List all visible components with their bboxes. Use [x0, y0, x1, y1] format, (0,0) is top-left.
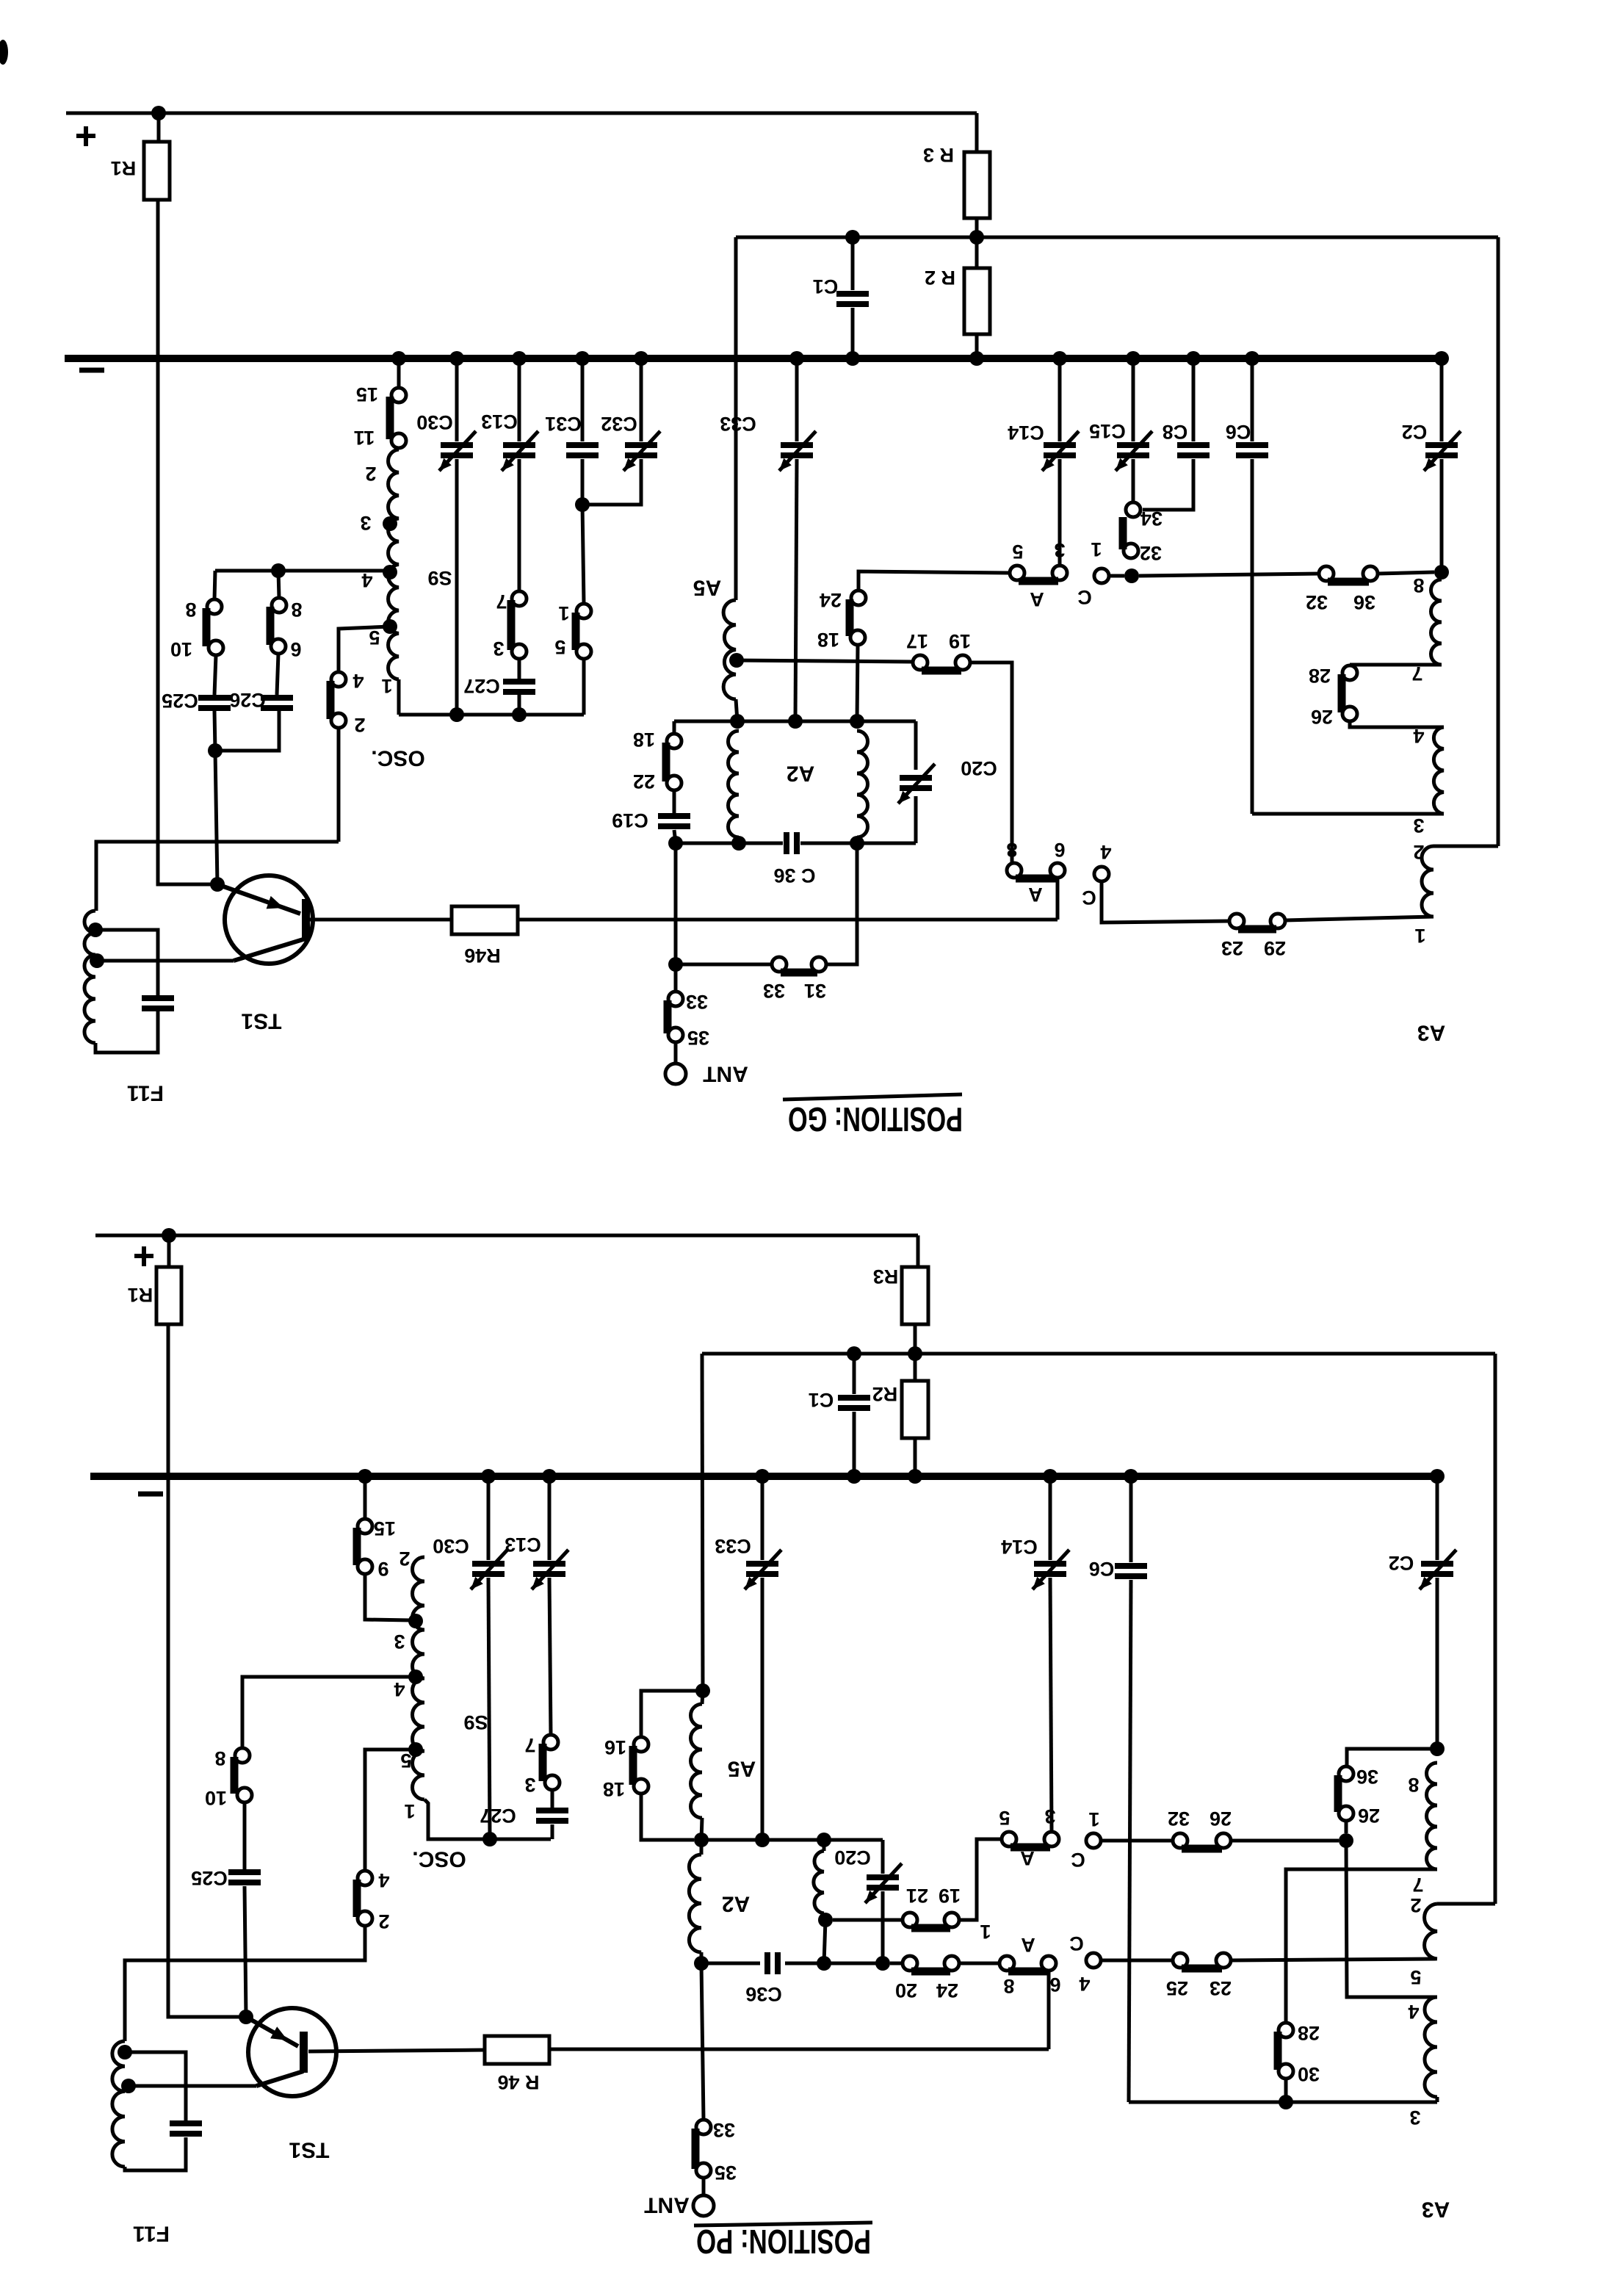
svg-text:25: 25	[1166, 1977, 1188, 1999]
wire S9 tap4 to switch pairs	[215, 569, 390, 573]
wire bus to C2 (bottom)	[1436, 1476, 1439, 1560]
wire R3 drop (bottom)	[916, 1235, 920, 1267]
wire C36 line right	[785, 1962, 883, 1965]
switch contact 7 (bottom)	[543, 1735, 558, 1750]
capacitor C8	[1177, 442, 1210, 448]
svg-text:5: 5	[1012, 541, 1023, 563]
wire osc line to F11	[96, 842, 339, 911]
wire TS1 collector to R46	[310, 918, 452, 922]
resistor R1	[144, 142, 170, 200]
variable capacitor C33	[781, 442, 813, 448]
node C20 bottom (bottom)	[875, 1956, 890, 1971]
switch bar 21-19	[911, 1924, 950, 1932]
svg-text:C: C	[1077, 586, 1092, 608]
wire C1 to bus (bottom)	[853, 1412, 856, 1476]
svg-text:2: 2	[1410, 1894, 1421, 1916]
capacitor C31	[566, 442, 599, 448]
wire + supply rail (bottom)	[95, 1234, 918, 1238]
svg-text:R46: R46	[464, 945, 501, 967]
node bus to C6	[1245, 351, 1259, 366]
svg-text:1: 1	[1091, 538, 1102, 560]
svg-text:5: 5	[554, 636, 565, 658]
svg-text:19: 19	[949, 630, 971, 652]
wire bus to C30	[455, 358, 459, 441]
wire contact 35 to ANT (bottom)	[702, 2178, 706, 2195]
coil A3 winding 2-1	[1422, 846, 1433, 917]
svg-text:3: 3	[493, 638, 504, 660]
wire contact 10 to C25 (bottom)	[243, 1802, 247, 1869]
node A2 top / C33	[788, 714, 803, 729]
svg-text:30: 30	[1298, 2063, 1320, 2085]
switch bar 17-19	[922, 667, 961, 675]
wire contact 18 to A5 bottom	[641, 1794, 694, 1840]
switch contact 3 (bottom)	[545, 1775, 560, 1790]
variable capacitor C14	[1044, 442, 1076, 448]
switch contact 5	[576, 644, 591, 659]
svg-text:C8: C8	[1163, 421, 1188, 443]
node A5 top (bottom)	[695, 1683, 710, 1698]
wire A2 primary stub	[700, 1840, 704, 1855]
node bus to C33 (bottom)	[755, 1469, 770, 1484]
wire R2 to bus (bottom)	[914, 1438, 917, 1476]
svg-text:C13: C13	[481, 411, 518, 433]
wire R1 top stub (bottom)	[167, 1235, 171, 1267]
switch bar 8-6	[267, 607, 275, 645]
svg-text:22: 22	[633, 770, 655, 793]
svg-text:36: 36	[1356, 1766, 1378, 1788]
switch bar 15-9	[353, 1528, 361, 1565]
wire bus to C13	[518, 358, 521, 441]
svg-text:11: 11	[354, 427, 375, 449]
switch contact C (isolated, row1)	[1094, 568, 1109, 583]
svg-text:28: 28	[1298, 2022, 1320, 2044]
switch contact 8 (bottom)	[235, 1748, 250, 1763]
wire R1 top stub	[157, 113, 161, 142]
svg-text:C13: C13	[505, 1534, 541, 1556]
switch bar 5-3	[1019, 577, 1058, 585]
wire tap to contact 21	[833, 1918, 903, 1922]
switch contact 9	[358, 1559, 372, 1574]
wire right side to winding 2	[1433, 845, 1498, 848]
node F11 tap upper (bottom)	[117, 2045, 132, 2059]
wire bus to C6 (bottom)	[1129, 1476, 1133, 1562]
switch bar 29-23	[1238, 925, 1276, 934]
wire A2 bottom line right	[800, 842, 916, 845]
node A2 top / 18	[850, 714, 864, 729]
coil A5	[723, 600, 736, 699]
wire antenna node down	[674, 964, 678, 992]
capacitor C6 (bottom)	[1115, 1563, 1147, 1569]
switch contact 11	[391, 433, 406, 448]
wire A2 secondary stub top	[822, 1840, 826, 1851]
switch contact 2	[331, 713, 346, 728]
wire C32 join jog	[582, 459, 641, 505]
svg-text:C19: C19	[612, 809, 648, 831]
svg-text:6: 6	[1054, 839, 1065, 861]
wire 5/3 row to contact 24	[858, 571, 1010, 591]
wire C14 to contact 3	[1058, 459, 1062, 566]
wire bus to C33	[795, 358, 799, 441]
resistor R3 (bottom)	[902, 1267, 928, 1324]
wire contact 3 to C27 (bottom)	[551, 1790, 554, 1808]
node osc bottom / C30	[449, 707, 464, 722]
wire corner to contact 8 left	[214, 571, 215, 599]
node bus to C8	[1186, 351, 1201, 366]
switch contact 7	[512, 591, 527, 606]
node A3 bottom tee (bottom)	[1279, 2095, 1293, 2109]
svg-text:7: 7	[524, 1734, 535, 1756]
capacitor C27 (bottom)	[536, 1808, 568, 1813]
svg-text:R3: R3	[873, 1266, 899, 1288]
svg-text:C26: C26	[229, 689, 266, 711]
wire supply to A5 (left side)	[734, 237, 738, 600]
switch contact 22	[667, 776, 681, 790]
svg-text:7: 7	[1411, 663, 1422, 685]
node bus to C2 (bus end)	[1434, 351, 1449, 366]
symbol + (battery plus)	[76, 134, 95, 138]
resistor R2 (bottom)	[902, 1381, 928, 1438]
switch contact 24	[851, 591, 866, 605]
switch contact 32 (bottom)	[1173, 1833, 1187, 1848]
variable capacitor C20 (bottom)	[867, 1874, 899, 1880]
resistor R46 (bottom)	[485, 2036, 549, 2064]
wire R2 to bus	[975, 334, 979, 358]
switch contact 3 (bottom A row)	[1044, 1832, 1059, 1846]
svg-text:2: 2	[365, 463, 376, 485]
node R2 bus	[969, 351, 984, 366]
svg-text:10: 10	[170, 638, 192, 660]
wire bus to C2	[1440, 358, 1444, 441]
svg-text:33: 33	[713, 2119, 735, 2141]
terminal ANT (bottom)	[693, 2195, 714, 2216]
wire C30 down (bottom)	[488, 1578, 490, 1839]
wire contact 2 down	[337, 728, 341, 842]
svg-text:2: 2	[399, 1548, 410, 1570]
node F11 tap lower	[90, 953, 104, 968]
capacitor F11 tuning (bottom)	[170, 2120, 202, 2126]
wire C2 down	[1440, 459, 1444, 572]
svg-text:19: 19	[939, 1885, 961, 1907]
wire C13 to contact 7 (bottom)	[549, 1578, 551, 1735]
switch contact 32 (stack)	[1124, 544, 1138, 558]
wire C19 node down to 33 node	[674, 843, 678, 964]
svg-text:A5: A5	[728, 1757, 756, 1781]
svg-text:1: 1	[1088, 1808, 1099, 1830]
switch contact 35 (bottom)	[696, 2163, 711, 2178]
wire C1 top	[851, 237, 855, 290]
svg-text:C14: C14	[1001, 1536, 1038, 1558]
capacitor C25 (bottom)	[228, 1869, 261, 1875]
coil A3 winding 4-3	[1433, 727, 1444, 814]
wire C19 to A2 bottom	[674, 830, 676, 843]
wire 7 end to contacts	[1350, 663, 1442, 667]
node C1 junction	[845, 230, 860, 245]
svg-text:10: 10	[205, 1787, 227, 1809]
wire secondary tap down	[824, 1920, 825, 1963]
svg-text:8: 8	[1003, 1975, 1014, 1997]
svg-text:18: 18	[633, 729, 655, 751]
svg-text:C1: C1	[813, 275, 839, 297]
wire right side to winding 2 (bottom)	[1437, 1902, 1495, 1906]
svg-text:18: 18	[817, 629, 839, 651]
svg-text:35: 35	[715, 2162, 737, 2184]
switch contact 5 (A row)	[1010, 566, 1024, 580]
switch contact 29	[1270, 914, 1285, 928]
svg-text:C1: C1	[809, 1389, 834, 1411]
svg-text:5: 5	[369, 627, 380, 649]
variable capacitor C2	[1425, 442, 1458, 448]
switch bar 32-26 (bottom)	[1182, 1845, 1222, 1853]
svg-text:A: A	[1028, 884, 1043, 906]
switch contact 15	[391, 388, 406, 402]
svg-text:29: 29	[1264, 937, 1286, 959]
wire bus to C14	[1058, 358, 1062, 441]
wire emitter to F11	[97, 959, 234, 963]
svg-text:21: 21	[906, 1885, 928, 1907]
wire C27 down	[518, 695, 521, 715]
scan artifact (corner mark)	[0, 40, 8, 65]
svg-text:8: 8	[1006, 839, 1017, 861]
svg-text:5: 5	[1410, 1966, 1421, 1988]
switch contact 32 (pair)	[1319, 566, 1334, 581]
svg-text:7: 7	[1412, 1874, 1423, 1896]
variable capacitor C2 (bottom)	[1421, 1561, 1453, 1567]
svg-text:16: 16	[604, 1736, 626, 1758]
svg-text:C15: C15	[1089, 420, 1126, 442]
node bus to C13	[512, 351, 527, 366]
switch contact 36	[1363, 566, 1378, 581]
variable capacitor C13 (bottom)	[533, 1561, 565, 1567]
variable capacitor C30	[441, 442, 473, 448]
wire R1 down to base (bottom)	[168, 1324, 242, 2017]
switch contact 30	[1279, 2064, 1293, 2079]
switch contact 4 (bottom)	[358, 1871, 372, 1885]
wire A3 bottom rail	[1129, 2101, 1437, 2104]
switch contact 19 (bottom)	[944, 1913, 959, 1927]
wire C27 down (bottom)	[551, 1824, 554, 1839]
switch contact 1	[576, 604, 591, 618]
wire join to TS1 base	[215, 751, 217, 884]
switch contact 36 (bottom)	[1339, 1766, 1353, 1781]
node F11 tap upper	[88, 923, 103, 937]
wire contact 19 to contact 5 (bottom)	[959, 1839, 1002, 1920]
wire emitter to F11 (bottom)	[129, 2084, 256, 2088]
wire bus to C14 (bottom)	[1049, 1476, 1052, 1560]
switch contact 35	[668, 1028, 683, 1042]
wire bus to C32	[640, 358, 643, 441]
switch contact 4/C (bottom row2)	[1086, 1953, 1101, 1968]
svg-text:C20: C20	[834, 1846, 871, 1869]
node bus to C13 (bottom)	[542, 1469, 557, 1484]
svg-text:R1: R1	[128, 1284, 153, 1306]
svg-text:3: 3	[524, 1774, 535, 1796]
svg-text:28: 28	[1309, 665, 1331, 687]
switch contact 18 (A2 left)	[667, 734, 681, 748]
wire bus to C15	[1132, 358, 1135, 441]
wire S9 tap5 to contact 4	[339, 627, 390, 672]
wire A5 bottom line right	[701, 1838, 883, 1842]
switch bar 28-26	[1338, 674, 1346, 712]
variable capacitor C14 branch: node	[1052, 351, 1067, 366]
wire C6 down to A3 box	[1251, 459, 1254, 814]
wire supply branch line	[736, 236, 1498, 239]
wire bus to C31	[581, 358, 585, 441]
wire R1 down to base corner	[158, 200, 213, 884]
svg-text:A: A	[1021, 1934, 1035, 1956]
node R3/R2 junction	[969, 230, 984, 245]
coil A3 winding 8-7 (bottom)	[1427, 1763, 1438, 1869]
capacitor C27	[503, 679, 535, 685]
svg-text:33: 33	[686, 991, 708, 1013]
svg-text:ANT: ANT	[703, 1062, 748, 1086]
wire oscillator bottom rail	[397, 679, 401, 715]
svg-text:A5: A5	[693, 576, 721, 600]
wire A2 right side bottom	[914, 796, 918, 843]
wire bus to C13 (bottom)	[548, 1476, 552, 1560]
switch contact 1/C (bottom row1)	[1086, 1833, 1101, 1848]
wire C25 to TS1 base (bottom)	[245, 1886, 246, 2017]
wire C1 top (bottom)	[853, 1354, 856, 1394]
svg-text:R2: R2	[872, 1383, 898, 1405]
symbol - (bottom)	[138, 1492, 163, 1497]
svg-text:S9: S9	[463, 1711, 488, 1733]
wire F11 tap to cap (bottom)	[125, 2052, 186, 2120]
wire C36 line left	[701, 1962, 760, 1965]
svg-text:5: 5	[400, 1750, 411, 1772]
wire 26 to winding 4	[1350, 721, 1444, 727]
wire C20 drop (bottom)	[881, 1840, 885, 1874]
node S9 tap 5 (bottom)	[408, 1742, 423, 1757]
variable capacitor C15	[1117, 442, 1149, 448]
wire C20 to 20/24 line	[881, 1891, 885, 1963]
switch bar 4-2	[327, 681, 335, 719]
wire + supply rail (top schematic)	[66, 112, 977, 115]
capacitor C6	[1236, 442, 1268, 448]
wire contact 24 to contact 8	[959, 1962, 999, 1965]
switch contact 16	[634, 1737, 648, 1752]
coil F11 (bottom)	[112, 2041, 125, 2167]
node bus to C2 (bottom, bus end)	[1430, 1469, 1445, 1484]
coil A2 secondary	[857, 731, 868, 837]
wire C26 join jog	[215, 711, 279, 751]
svg-text:33: 33	[763, 980, 785, 1002]
wire contact 22 to C19	[673, 790, 676, 813]
switch bar 33-35 (bottom)	[692, 2129, 700, 2169]
svg-text:3: 3	[394, 1631, 405, 1653]
node tap4 wire tee	[271, 563, 286, 578]
wire A2 left top stub	[673, 721, 676, 734]
wire wiper node down to winding4	[1346, 1841, 1437, 1997]
wire F11 tap to cap	[95, 930, 158, 995]
wire A2 primary to C36	[700, 1952, 704, 1963]
wire A2 top line	[674, 720, 916, 723]
svg-text:3: 3	[360, 512, 371, 534]
svg-text:C27: C27	[463, 675, 500, 697]
wire bus to C6	[1251, 358, 1254, 441]
svg-text:R 46: R 46	[497, 2071, 539, 2093]
wire TS1 collector to R46 (bottom)	[308, 2050, 485, 2051]
node bus to C6 (bottom)	[1124, 1469, 1138, 1484]
coil A3 winding 4-3 (bottom)	[1425, 1997, 1437, 2097]
switch contact 31	[811, 957, 826, 972]
switch contact 3 (A row)	[1052, 566, 1067, 580]
wire node to contact 20	[890, 1962, 903, 1965]
wire bus to contact 15 (bottom)	[364, 1476, 367, 1519]
wire C13 to contact 7	[518, 459, 521, 591]
wire contact 19 to contact 8	[970, 663, 1012, 863]
node bus to contact 15	[391, 351, 406, 366]
wire C1 to bus	[851, 308, 855, 358]
wire contact 9 to S9 tap3	[365, 1574, 411, 1620]
variable capacitor C20	[900, 775, 932, 781]
wire A5 top to contact 16	[641, 1691, 703, 1737]
svg-text:32: 32	[1306, 591, 1328, 613]
wire R3 drop from + rail	[975, 113, 979, 152]
svg-text:ANT: ANT	[644, 2193, 690, 2217]
switch contact C (row2)	[1094, 867, 1109, 881]
wire supply branch line (bottom)	[702, 1352, 1495, 1356]
wire contact to 32 (bottom)	[1101, 1839, 1173, 1843]
svg-text:4: 4	[1413, 725, 1424, 747]
switch contact 8 (bottom A row)	[999, 1956, 1014, 1971]
svg-text:C2: C2	[1402, 421, 1428, 443]
title underline (bottom)	[694, 2223, 872, 2225]
svg-text:4: 4	[394, 1678, 405, 1700]
svg-text:23: 23	[1221, 937, 1243, 959]
switch contact 8 (right pair)	[272, 598, 286, 613]
resistor R1 (bottom)	[156, 1267, 181, 1324]
switch bar 20-24	[911, 1968, 950, 1976]
svg-text:26: 26	[1311, 706, 1333, 728]
variable capacitor C32	[625, 442, 657, 448]
wire winding 1 to contact 29	[1285, 917, 1433, 920]
wire node to 36/32 pair	[1139, 574, 1319, 576]
svg-text:OSC.: OSC.	[412, 1847, 466, 1871]
svg-text:A2: A2	[787, 762, 814, 786]
wire A3 top to contact 36	[1347, 1749, 1437, 1766]
node C33/A5 line (bottom)	[755, 1833, 770, 1847]
svg-text:23: 23	[1210, 1977, 1232, 1999]
svg-text:8: 8	[214, 1747, 225, 1769]
wire contact 30 down	[1284, 2079, 1288, 2102]
wire 36 to A3 node	[1378, 572, 1434, 574]
switch bar 16-18	[629, 1746, 637, 1785]
wire A5 stub top	[702, 1691, 703, 1704]
node S9 bottom / C30 (bottom)	[482, 1832, 497, 1846]
node S9 tap 5	[383, 619, 397, 634]
node bus to C14 (bottom)	[1043, 1469, 1057, 1484]
svg-text:OSC.: OSC.	[371, 746, 424, 770]
node TS1 base junction	[210, 877, 225, 892]
wire tap4 to contact 8 (bottom)	[242, 1677, 416, 1748]
ground/minus bus (bottom)	[90, 1473, 1437, 1480]
svg-text:1: 1	[980, 1921, 991, 1943]
coil F11	[84, 911, 95, 1043]
node C1 bus (bottom)	[847, 1469, 861, 1484]
node bus to C30	[449, 351, 464, 366]
svg-text:S9: S9	[427, 567, 452, 589]
node S9 tap 4 (bottom)	[408, 1669, 423, 1684]
svg-text:15: 15	[356, 383, 378, 405]
svg-text:1: 1	[558, 602, 569, 624]
wire bus to C30 (bottom)	[487, 1476, 491, 1560]
svg-text:C2: C2	[1389, 1552, 1414, 1574]
svg-text:C31: C31	[545, 413, 582, 435]
node A2 secondary tap (bottom)	[818, 1913, 833, 1927]
node osc bottom / C27	[512, 707, 527, 722]
switch bar 8-10	[203, 608, 211, 646]
switch bar 24-18	[846, 599, 854, 636]
